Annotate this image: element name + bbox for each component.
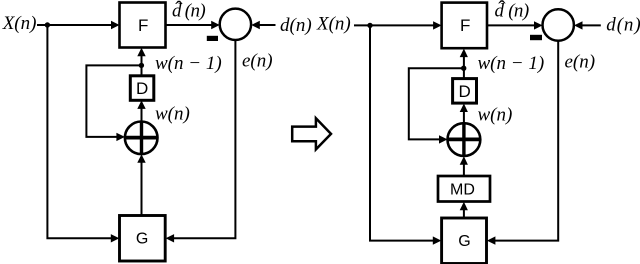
adder circle-plus (left) — [125, 122, 158, 155]
wire: left rail input down into G — [47, 25, 112, 238]
svg-text:(n): (n) — [508, 1, 529, 22]
wire: D up into F — [141, 53, 143, 76]
svg-text:F: F — [138, 16, 148, 35]
wire: G output up into adder — [141, 160, 143, 216]
wire: summer output error rail down into G right side (right) — [493, 41, 558, 241]
svg-text:D: D — [459, 82, 471, 101]
svg-text:ˆ: ˆ — [498, 0, 506, 21]
summer circle (right) — [543, 9, 574, 40]
svg-text:w(n): w(n) — [155, 104, 190, 125]
transform arrow between diagrams — [292, 118, 331, 149]
wire: feedback loop from w(n-1) node to adder (right) — [409, 68, 464, 139]
svg-text:w(n): w(n) — [478, 105, 513, 126]
svg-text:MD: MD — [450, 182, 475, 199]
wire: G output up into MD (right) — [463, 208, 465, 219]
svg-text:(n): (n) — [185, 1, 206, 22]
summer circle (left) — [220, 9, 251, 40]
wire: d(n) input into summer (left) — [257, 24, 276, 26]
node: input junction dot (left) — [45, 22, 50, 27]
svg-text:G: G — [136, 230, 148, 247]
svg-text:X(n): X(n) — [2, 13, 37, 34]
block D (left) — [130, 76, 154, 101]
minus sign at summer (right) — [530, 35, 542, 40]
node: input junction dot (right) — [367, 23, 372, 28]
node: w(n-1) junction dot (right) — [461, 66, 466, 71]
wire: adder up into D — [141, 106, 143, 121]
block F (right) — [442, 3, 487, 49]
svg-text:d(n): d(n) — [606, 15, 640, 36]
adder circle-plus (right) — [448, 123, 481, 156]
block F (left) — [120, 3, 166, 48]
svg-text:X(n): X(n) — [316, 13, 351, 34]
svg-text:D: D — [136, 79, 148, 98]
wire: MD output up into adder (right) — [463, 162, 465, 176]
wire: left rail input down into G (right) — [370, 25, 434, 240]
svg-text:G: G — [458, 233, 470, 250]
svg-text:F: F — [460, 16, 470, 35]
wire: summer output error rail down into G right side — [172, 40, 235, 238]
block D (right) — [453, 79, 477, 104]
block G (right) — [442, 218, 487, 264]
wire: X(n) input to block F — [37, 24, 113, 26]
minus sign at summer (left) — [207, 36, 218, 41]
wire: d(n) input into summer (right) — [580, 24, 601, 26]
svg-text:d(n): d(n) — [280, 15, 312, 36]
wire: adder up into D (right) — [463, 109, 465, 123]
wire: D up into F (right) — [463, 54, 465, 79]
svg-text:e(n): e(n) — [242, 51, 273, 72]
wire: feedback loop from w(n-1) node to adder — [86, 65, 141, 136]
wire: F output to summer (right) — [487, 24, 536, 26]
svg-text:w(n − 1): w(n − 1) — [478, 53, 545, 74]
block G (left) — [120, 216, 166, 262]
svg-text:e(n): e(n) — [565, 52, 596, 73]
wire: F output to summer — [166, 24, 214, 26]
block MD (right) — [438, 176, 490, 202]
svg-text:ˆ: ˆ — [175, 0, 183, 21]
wire: X(n) input to block F (right) — [354, 24, 435, 26]
node: w(n-1) junction dot (left) — [139, 63, 144, 68]
svg-text:w(n − 1): w(n − 1) — [155, 53, 222, 74]
